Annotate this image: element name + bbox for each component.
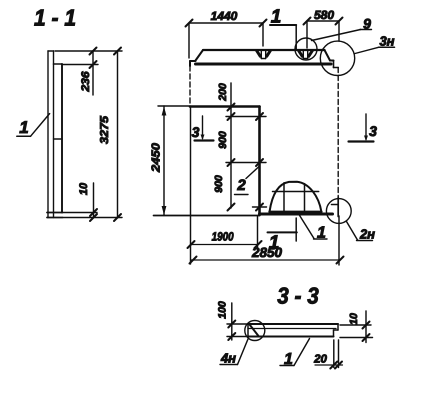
svg-text:3: 3	[192, 124, 200, 140]
svg-text:200: 200	[217, 83, 229, 102]
svg-text:1900: 1900	[212, 230, 234, 244]
svg-text:3: 3	[369, 123, 377, 139]
svg-text:20: 20	[313, 354, 327, 366]
svg-text:4н: 4н	[220, 351, 236, 366]
svg-text:100: 100	[217, 301, 229, 319]
svg-text:10: 10	[348, 313, 360, 325]
svg-text:10: 10	[78, 182, 90, 195]
svg-text:3 - 3: 3 - 3	[277, 283, 319, 309]
svg-text:3н: 3н	[379, 34, 394, 49]
svg-text:236: 236	[80, 71, 92, 93]
svg-text:900: 900	[213, 175, 225, 193]
svg-text:3275: 3275	[99, 115, 111, 144]
svg-text:1440: 1440	[211, 9, 238, 23]
svg-text:900: 900	[217, 131, 229, 149]
svg-text:1 - 1: 1 - 1	[34, 5, 76, 31]
svg-text:2450: 2450	[151, 142, 163, 173]
svg-text:2850: 2850	[251, 245, 282, 260]
svg-text:2: 2	[236, 177, 246, 194]
svg-text:580: 580	[314, 8, 334, 22]
svg-text:2н: 2н	[359, 227, 375, 242]
svg-text:1: 1	[19, 118, 28, 137]
